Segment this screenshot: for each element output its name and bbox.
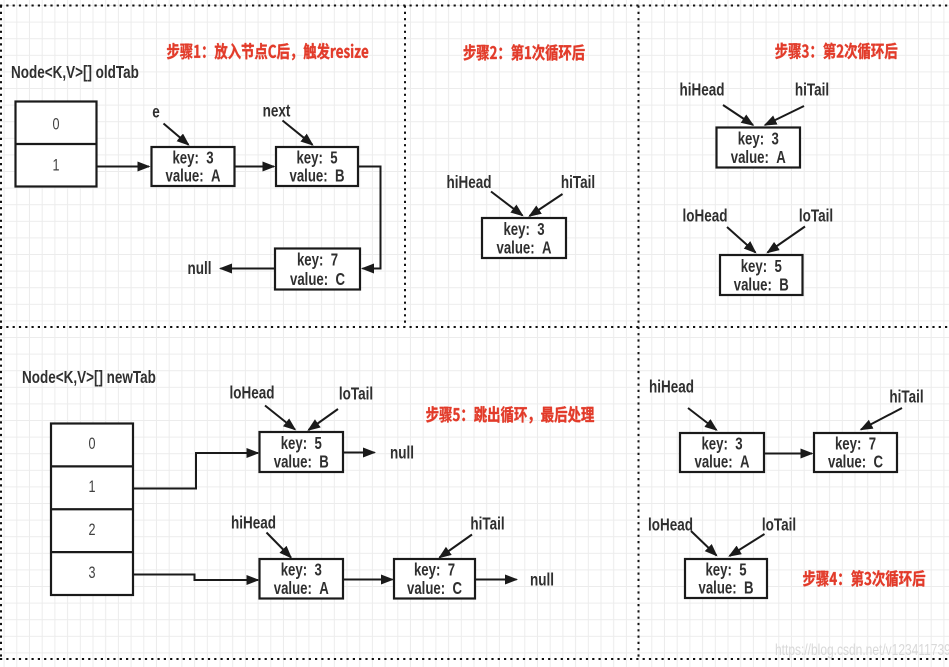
node key:3 value:A (p5) [680, 433, 764, 472]
label newTab [22, 368, 156, 387]
title step5 (red) [426, 406, 594, 423]
svg-text:value: A: value: A [274, 580, 329, 599]
node key:3 value:A (newTab) [260, 559, 344, 599]
svg-text:value: B: value: B [734, 276, 789, 295]
label hiTail (p3) [795, 81, 829, 100]
wire key:7 -> null [221, 268, 276, 270]
label loTail (p4) [339, 385, 373, 404]
svg-text:next: next [263, 102, 291, 121]
node key:5 value:B (newTab) [260, 432, 344, 472]
svg-text:2: 2 [88, 522, 95, 540]
svg-text:value: B: value: B [699, 579, 754, 598]
svg-text:hiHead: hiHead [680, 81, 725, 100]
arrow hiTail -> key:7 (p4) [440, 535, 473, 558]
label null (p4 bottom) [530, 571, 554, 590]
svg-text:value: A: value: A [166, 167, 221, 186]
svg-text:key: 5: key: 5 [705, 561, 746, 580]
svg-text:1: 1 [88, 479, 95, 497]
svg-text:value: C: value: C [828, 453, 883, 472]
svg-text:hiHead: hiHead [231, 514, 276, 533]
svg-text:e: e [152, 103, 160, 122]
arrow hiTail -> key:7 (p5) [861, 408, 902, 430]
label null (p4 top) [390, 444, 414, 463]
panel divider vertical 1 [404, 6, 406, 328]
svg-text:hiTail: hiTail [470, 515, 504, 534]
svg-text:value: B: value: B [290, 167, 345, 186]
arrow hiHead -> key:3 (p2) [491, 192, 523, 216]
title step4 (red) [803, 570, 925, 587]
node key:3 value:A (p2) [482, 218, 566, 258]
arrow hiHead -> key:3 (p5) [688, 408, 717, 430]
arrow hiHead -> key:3 (p3) [723, 105, 753, 125]
title step3 (red) [775, 43, 897, 60]
label e [152, 103, 160, 122]
svg-text:value: C: value: C [407, 580, 462, 599]
svg-text:hiTail: hiTail [795, 81, 829, 100]
label oldTab [11, 63, 139, 82]
label null (oldTab) [188, 259, 212, 278]
svg-text:Node<K,V>[] oldTab: Node<K,V>[] oldTab [11, 63, 139, 82]
array oldTab [16, 102, 97, 187]
svg-text:key: 5: key: 5 [281, 434, 322, 453]
title step2 (red) [464, 44, 585, 61]
svg-text:hiTail: hiTail [889, 388, 923, 407]
svg-text:loHead: loHead [683, 207, 728, 226]
svg-text:Node<K,V>[] newTab: Node<K,V>[] newTab [22, 368, 156, 387]
watermark [775, 640, 949, 658]
label hiTail (p5) [889, 388, 923, 407]
svg-text:loTail: loTail [799, 207, 833, 226]
panel border top [0, 5, 949, 7]
label loHead (p5) [648, 516, 693, 535]
svg-text:key: 3: key: 3 [738, 130, 779, 149]
svg-text:null: null [530, 571, 554, 590]
svg-text:hiTail: hiTail [561, 173, 595, 192]
arrow e -> node key:3 [164, 124, 189, 145]
node key:5 value:B (p3) [720, 255, 803, 295]
label hiHead (p2) [447, 173, 492, 192]
svg-text:1: 1 [52, 157, 59, 175]
svg-text:null: null [188, 259, 212, 278]
svg-text:hiHead: hiHead [447, 173, 492, 192]
wire key:3 -> key:7 (p5) [764, 453, 812, 455]
label hiHead (p5) [649, 378, 694, 397]
svg-text:value: A: value: A [695, 453, 750, 472]
label loTail (p5) [762, 516, 796, 535]
label hiTail (p2) [561, 173, 595, 192]
svg-text:key: 3: key: 3 [503, 220, 544, 239]
svg-text:value: A: value: A [731, 149, 786, 168]
arrow loTail -> key:5 (p3) [768, 227, 806, 253]
svg-text:key: 3: key: 3 [281, 561, 322, 580]
panel divider vertical 2 [638, 6, 640, 660]
label loHead (p3) [683, 207, 728, 226]
wire key:7 -> null (p4) [475, 579, 517, 581]
arrow hiHead -> key:3 (p4) [267, 533, 292, 558]
arrow hiTail -> key:3 (p2) [530, 194, 563, 216]
svg-text:loHead: loHead [230, 384, 275, 403]
arrow loTail -> key:5 (p5) [730, 534, 765, 556]
wire key:3 -> key:5 [235, 166, 275, 168]
panel divider horizontal [0, 326, 949, 328]
label loHead (p4) [230, 384, 275, 403]
label hiHead (p4) [231, 514, 276, 533]
label hiHead (p3) [680, 81, 725, 100]
svg-text:value: C: value: C [290, 270, 345, 289]
svg-text:null: null [390, 444, 414, 463]
node key:7 value:C (oldTab) [275, 249, 360, 290]
svg-text:0: 0 [88, 436, 95, 454]
node key:5 value:B (p5) [685, 559, 767, 598]
svg-text:key: 7: key: 7 [414, 561, 455, 580]
svg-text:key: 5: key: 5 [741, 257, 782, 276]
panel border bottom [0, 658, 949, 660]
svg-text:key: 3: key: 3 [172, 149, 213, 168]
wire array cell1 -> key:5 (elbow) [133, 453, 258, 489]
node key:7 value:C (p5) [814, 433, 897, 472]
wire array cell3 -> key:3 [133, 575, 258, 581]
svg-text:hiHead: hiHead [649, 378, 694, 397]
arrow loHead -> key:5 (p4) [265, 406, 295, 430]
svg-text:loTail: loTail [762, 516, 796, 535]
svg-text:3: 3 [88, 564, 95, 582]
node key:3 value:A (p3) [717, 128, 801, 168]
arrow loHead -> key:5 (p5) [691, 531, 717, 556]
node key:5 value:B (oldTab) [276, 147, 358, 186]
svg-text:value: A: value: A [497, 239, 552, 258]
wire array cell1 -> key:3 [97, 166, 150, 168]
label loTail (p3) [799, 207, 833, 226]
wire key:5 -> key:7 (down elbow) [358, 167, 381, 269]
arrow next -> node key:5 [283, 121, 313, 145]
svg-text:https://blog.csdn.net/v1234117: https://blog.csdn.net/v123411739 [775, 640, 949, 658]
array newTab [51, 424, 133, 596]
svg-text:key: 7: key: 7 [297, 251, 338, 270]
svg-text:key: 7: key: 7 [835, 435, 876, 454]
svg-text:loHead: loHead [648, 516, 693, 535]
arrow hiTail -> key:3 (p3) [765, 106, 804, 125]
title step1 (red) [167, 43, 368, 60]
svg-text:key: 5: key: 5 [296, 149, 337, 168]
svg-text:loTail: loTail [339, 385, 373, 404]
node key:7 value:C (newTab) [394, 559, 475, 599]
wire key:3 -> key:7 (p4) [343, 579, 393, 581]
arrow loTail -> key:5 (p4) [309, 409, 339, 430]
node key:3 value:A (oldTab) [152, 147, 235, 186]
svg-text:key: 3: key: 3 [701, 435, 742, 454]
wire key:5 -> null (p4) [343, 452, 375, 454]
label hiTail (p4) [470, 515, 504, 534]
svg-text:0: 0 [52, 116, 59, 134]
svg-text:value: B: value: B [274, 453, 329, 472]
arrow loHead -> key:5 (p3) [727, 227, 756, 253]
panel border left [0, 6, 2, 660]
label next [263, 102, 291, 121]
